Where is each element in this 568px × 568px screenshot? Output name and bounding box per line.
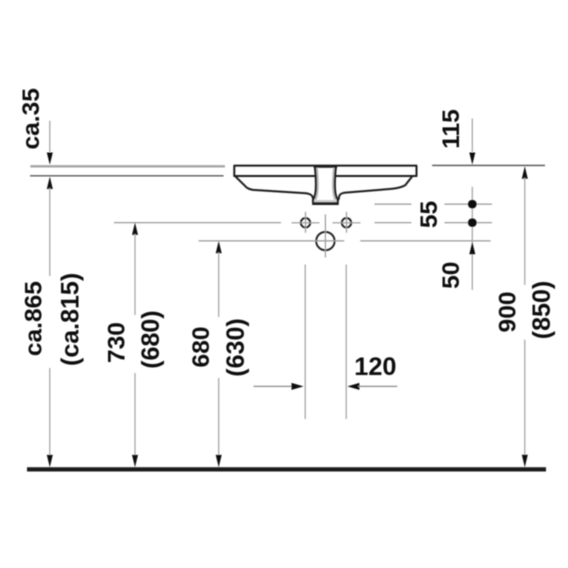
ca.865 arrow up [47, 177, 53, 189]
680 dimension line upper [218, 252, 220, 317]
chain dot lower [468, 218, 477, 227]
ca.865 dimension line lower [49, 368, 51, 457]
ca.35 arrow down [47, 153, 53, 165]
730 dimension line lower [134, 373, 136, 457]
115 arrow down [469, 153, 475, 165]
ca.865 arrow down at floor [47, 455, 53, 467]
730 dimension line upper [134, 234, 136, 315]
svg-text:115: 115 [438, 109, 465, 149]
ca.35 dimension line [49, 121, 51, 152]
floor line [27, 467, 546, 471]
basin rim outline [234, 166, 416, 200]
50 arrow up [469, 242, 475, 254]
120 arrow left-pointing [347, 383, 359, 390]
column base bar [312, 202, 339, 205]
svg-text:730: 730 [103, 322, 130, 363]
120 dimension line left [254, 385, 294, 387]
fixing hole left [301, 218, 310, 227]
hole vertical crosshairs [305, 212, 307, 233]
ca.865 dimension line upper [49, 188, 51, 276]
900 dimension line upper [524, 178, 526, 285]
basin centre column [312, 166, 339, 203]
basin bowl right profile [339, 177, 412, 199]
drain hole [316, 232, 334, 250]
drain vertical crosshair [324, 214, 326, 257]
730 arrow up [132, 223, 138, 235]
svg-text:50: 50 [438, 262, 465, 289]
730 arrow down at floor [132, 455, 138, 467]
level line y222 (fixing holes level) [114, 222, 281, 224]
counter bottom line [30, 175, 224, 177]
120 arrow right-pointing [292, 383, 304, 390]
svg-text:(680): (680) [137, 310, 165, 368]
counter top line [30, 165, 225, 167]
900 dimension line lower [524, 340, 526, 457]
svg-text:ca.865: ca.865 [20, 281, 47, 356]
115 dimension line [471, 118, 473, 152]
rim-level reference line right [432, 164, 545, 166]
120 extension line left [304, 265, 306, 420]
chain dot upper [468, 200, 477, 209]
120 dimension line right [358, 385, 397, 387]
chain dimension vertical line [471, 187, 473, 290]
680 arrow down at floor [216, 455, 222, 467]
basin bowl left profile [236, 177, 313, 200]
svg-text:(850): (850) [528, 281, 556, 339]
svg-text:900: 900 [494, 292, 521, 333]
svg-text:(ca.815): (ca.815) [56, 273, 84, 366]
680 arrow up [216, 241, 222, 253]
svg-text:ca.35: ca.35 [18, 88, 45, 149]
fixing hole right [342, 218, 351, 227]
900 arrow up [522, 166, 528, 178]
svg-text:120: 120 [354, 353, 396, 381]
svg-text:680: 680 [188, 327, 215, 368]
svg-text:(630): (630) [222, 318, 250, 376]
column top bar [314, 165, 338, 168]
120 extension line right [345, 265, 347, 420]
svg-text:55: 55 [416, 201, 443, 228]
680 dimension line lower [218, 378, 220, 457]
column base shading band [313, 200, 337, 202]
level line y204 (column base level) [114, 204, 492, 257]
column inner shading [315, 168, 317, 200]
drain level line y241 [199, 240, 345, 242]
900 arrow down at floor [522, 455, 528, 467]
